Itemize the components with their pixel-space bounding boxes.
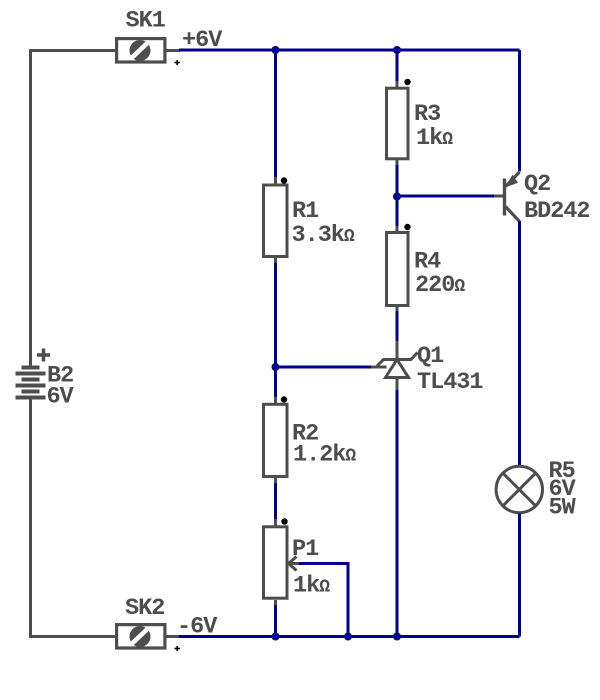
- wire right vertical rail to Q2 emitter: [518, 50, 521, 172]
- svg-text:R1: R1: [292, 198, 319, 225]
- pin dot R2: [281, 396, 287, 402]
- potentiometer P1: [264, 527, 288, 598]
- wire Q2 collector to lamp: [518, 221, 521, 466]
- pin marker of SK2: [175, 646, 181, 651]
- svg-text:P1: P1: [292, 536, 319, 563]
- resistor R3: [387, 88, 409, 159]
- svg-text:TL431: TL431: [417, 369, 483, 396]
- junction at reference node: [272, 363, 280, 371]
- shunt regulator Q1 TL431: [371, 341, 418, 391]
- pin dot R3: [404, 79, 410, 85]
- pin stub R4 top: [396, 226, 399, 233]
- wire R1 bottom to R2 top: [274, 263, 277, 399]
- connector SK1: [117, 39, 180, 62]
- junction bottom rail at wiper: [344, 633, 352, 641]
- svg-text:Q1: Q1: [417, 343, 444, 370]
- pin stub R4 bottom: [396, 306, 399, 313]
- junction at Q2 base node: [393, 193, 401, 201]
- junction bottom rail at P1: [272, 633, 280, 641]
- lamp R5: [496, 466, 542, 512]
- transistor Q2: [494, 172, 520, 222]
- svg-text:R3: R3: [414, 101, 440, 128]
- connector SK2: [117, 625, 180, 648]
- pin stub R2 bottom: [274, 478, 277, 485]
- svg-text:SK1: SK1: [126, 8, 166, 35]
- wire P1 wiper to -6V rail: [299, 564, 348, 637]
- pin stub R3 top: [396, 81, 399, 88]
- wire -6V bottom rail: [179, 635, 520, 638]
- svg-text:220Ω: 220Ω: [415, 272, 465, 299]
- pin marker of SK1: [175, 60, 181, 65]
- svg-text:Q2: Q2: [524, 171, 550, 198]
- wire gray left upper: down to battery top: [29, 49, 32, 366]
- pin stub R1 bottom: [274, 258, 277, 265]
- svg-text:1.2kΩ: 1.2kΩ: [293, 442, 356, 469]
- wire lamp to -6V rail: [518, 514, 521, 637]
- resistor R1: [264, 185, 288, 257]
- pin dot R4: [404, 224, 410, 230]
- wire top rail to R1: [274, 50, 277, 178]
- pin stub P1 bottom: [274, 600, 277, 607]
- wire P1 bottom to -6V rail: [274, 605, 277, 637]
- resistor R4: [387, 233, 409, 306]
- battery plus sign: [37, 349, 50, 362]
- wire reference to Q1: [276, 366, 372, 369]
- wiper arrow of P1: [288, 557, 300, 571]
- svg-text:3.3kΩ: 3.3kΩ: [292, 222, 355, 249]
- wire gray left lower: battery bottom down and right to SK2: [31, 399, 116, 637]
- pin stub R1 top: [274, 177, 277, 184]
- svg-text:BD242: BD242: [524, 198, 590, 225]
- wire R4 bottom to Q1 cathode: [396, 311, 399, 343]
- pin dot P1: [281, 518, 287, 524]
- svg-text:6V: 6V: [47, 384, 75, 411]
- pin stub R3 bottom: [396, 160, 399, 167]
- wire base node to Q2: [397, 195, 495, 198]
- pin stub P1 top: [274, 519, 277, 526]
- junction bottom rail at Q1: [393, 633, 401, 641]
- junction on top rail at R3: [393, 46, 401, 54]
- wire R3 to R4: [396, 165, 399, 228]
- battery B2: [16, 366, 46, 400]
- wire +6V top rail: [179, 49, 520, 52]
- pin stub R2 top: [274, 397, 277, 404]
- wire gray top: battery + to SK1: [29, 49, 115, 52]
- junction on top rail at R1: [272, 46, 280, 54]
- svg-text:1kΩ: 1kΩ: [293, 573, 330, 600]
- svg-text:SK2: SK2: [125, 595, 164, 622]
- svg-text:1kΩ: 1kΩ: [416, 125, 453, 152]
- wire top rail to R3: [396, 50, 399, 82]
- wire R2 bottom to P1 top: [274, 483, 277, 521]
- wire Q1 anode to -6V rail: [396, 390, 399, 637]
- resistor R2: [264, 404, 288, 476]
- svg-text:5W: 5W: [549, 495, 577, 522]
- pin dot R1: [281, 177, 287, 183]
